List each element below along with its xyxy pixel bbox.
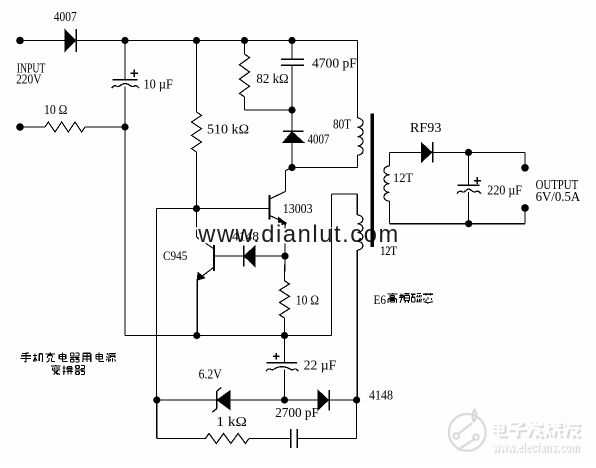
svg-text:10 Ω: 10 Ω [296, 293, 319, 308]
svg-text:22 µF: 22 µF [304, 357, 337, 372]
svg-text:510 kΩ: 510 kΩ [207, 121, 249, 136]
svg-text:1 kΩ: 1 kΩ [216, 414, 247, 429]
svg-text:80T: 80T [333, 117, 351, 132]
svg-text:4007: 4007 [54, 10, 77, 25]
svg-text:10 Ω: 10 Ω [44, 102, 67, 117]
svg-text:6V/0.5A: 6V/0.5A [536, 189, 581, 204]
svg-text:4148: 4148 [369, 388, 393, 403]
svg-text:13003: 13003 [283, 201, 313, 216]
svg-text:E6: E6 [374, 293, 387, 307]
svg-text:www.dianlut.com: www.dianlut.com [197, 221, 399, 248]
svg-text:220 µF: 220 µF [487, 182, 522, 197]
svg-text:4007: 4007 [308, 132, 330, 147]
svg-text:2700 pF: 2700 pF [275, 405, 319, 420]
svg-text:12T: 12T [380, 243, 397, 258]
svg-text:www.elecfans.com: www.elecfans.com [492, 440, 580, 455]
svg-text:4700 pF: 4700 pF [312, 56, 357, 71]
svg-text:220V: 220V [16, 71, 41, 86]
svg-text:RF93: RF93 [410, 121, 441, 136]
svg-text:10 µF: 10 µF [144, 77, 173, 92]
svg-text:12T: 12T [393, 171, 413, 185]
svg-text:4148: 4148 [232, 229, 259, 244]
svg-text:82 kΩ: 82 kΩ [256, 71, 288, 86]
svg-text:6.2V: 6.2V [199, 366, 222, 381]
svg-text:C945: C945 [163, 249, 187, 263]
